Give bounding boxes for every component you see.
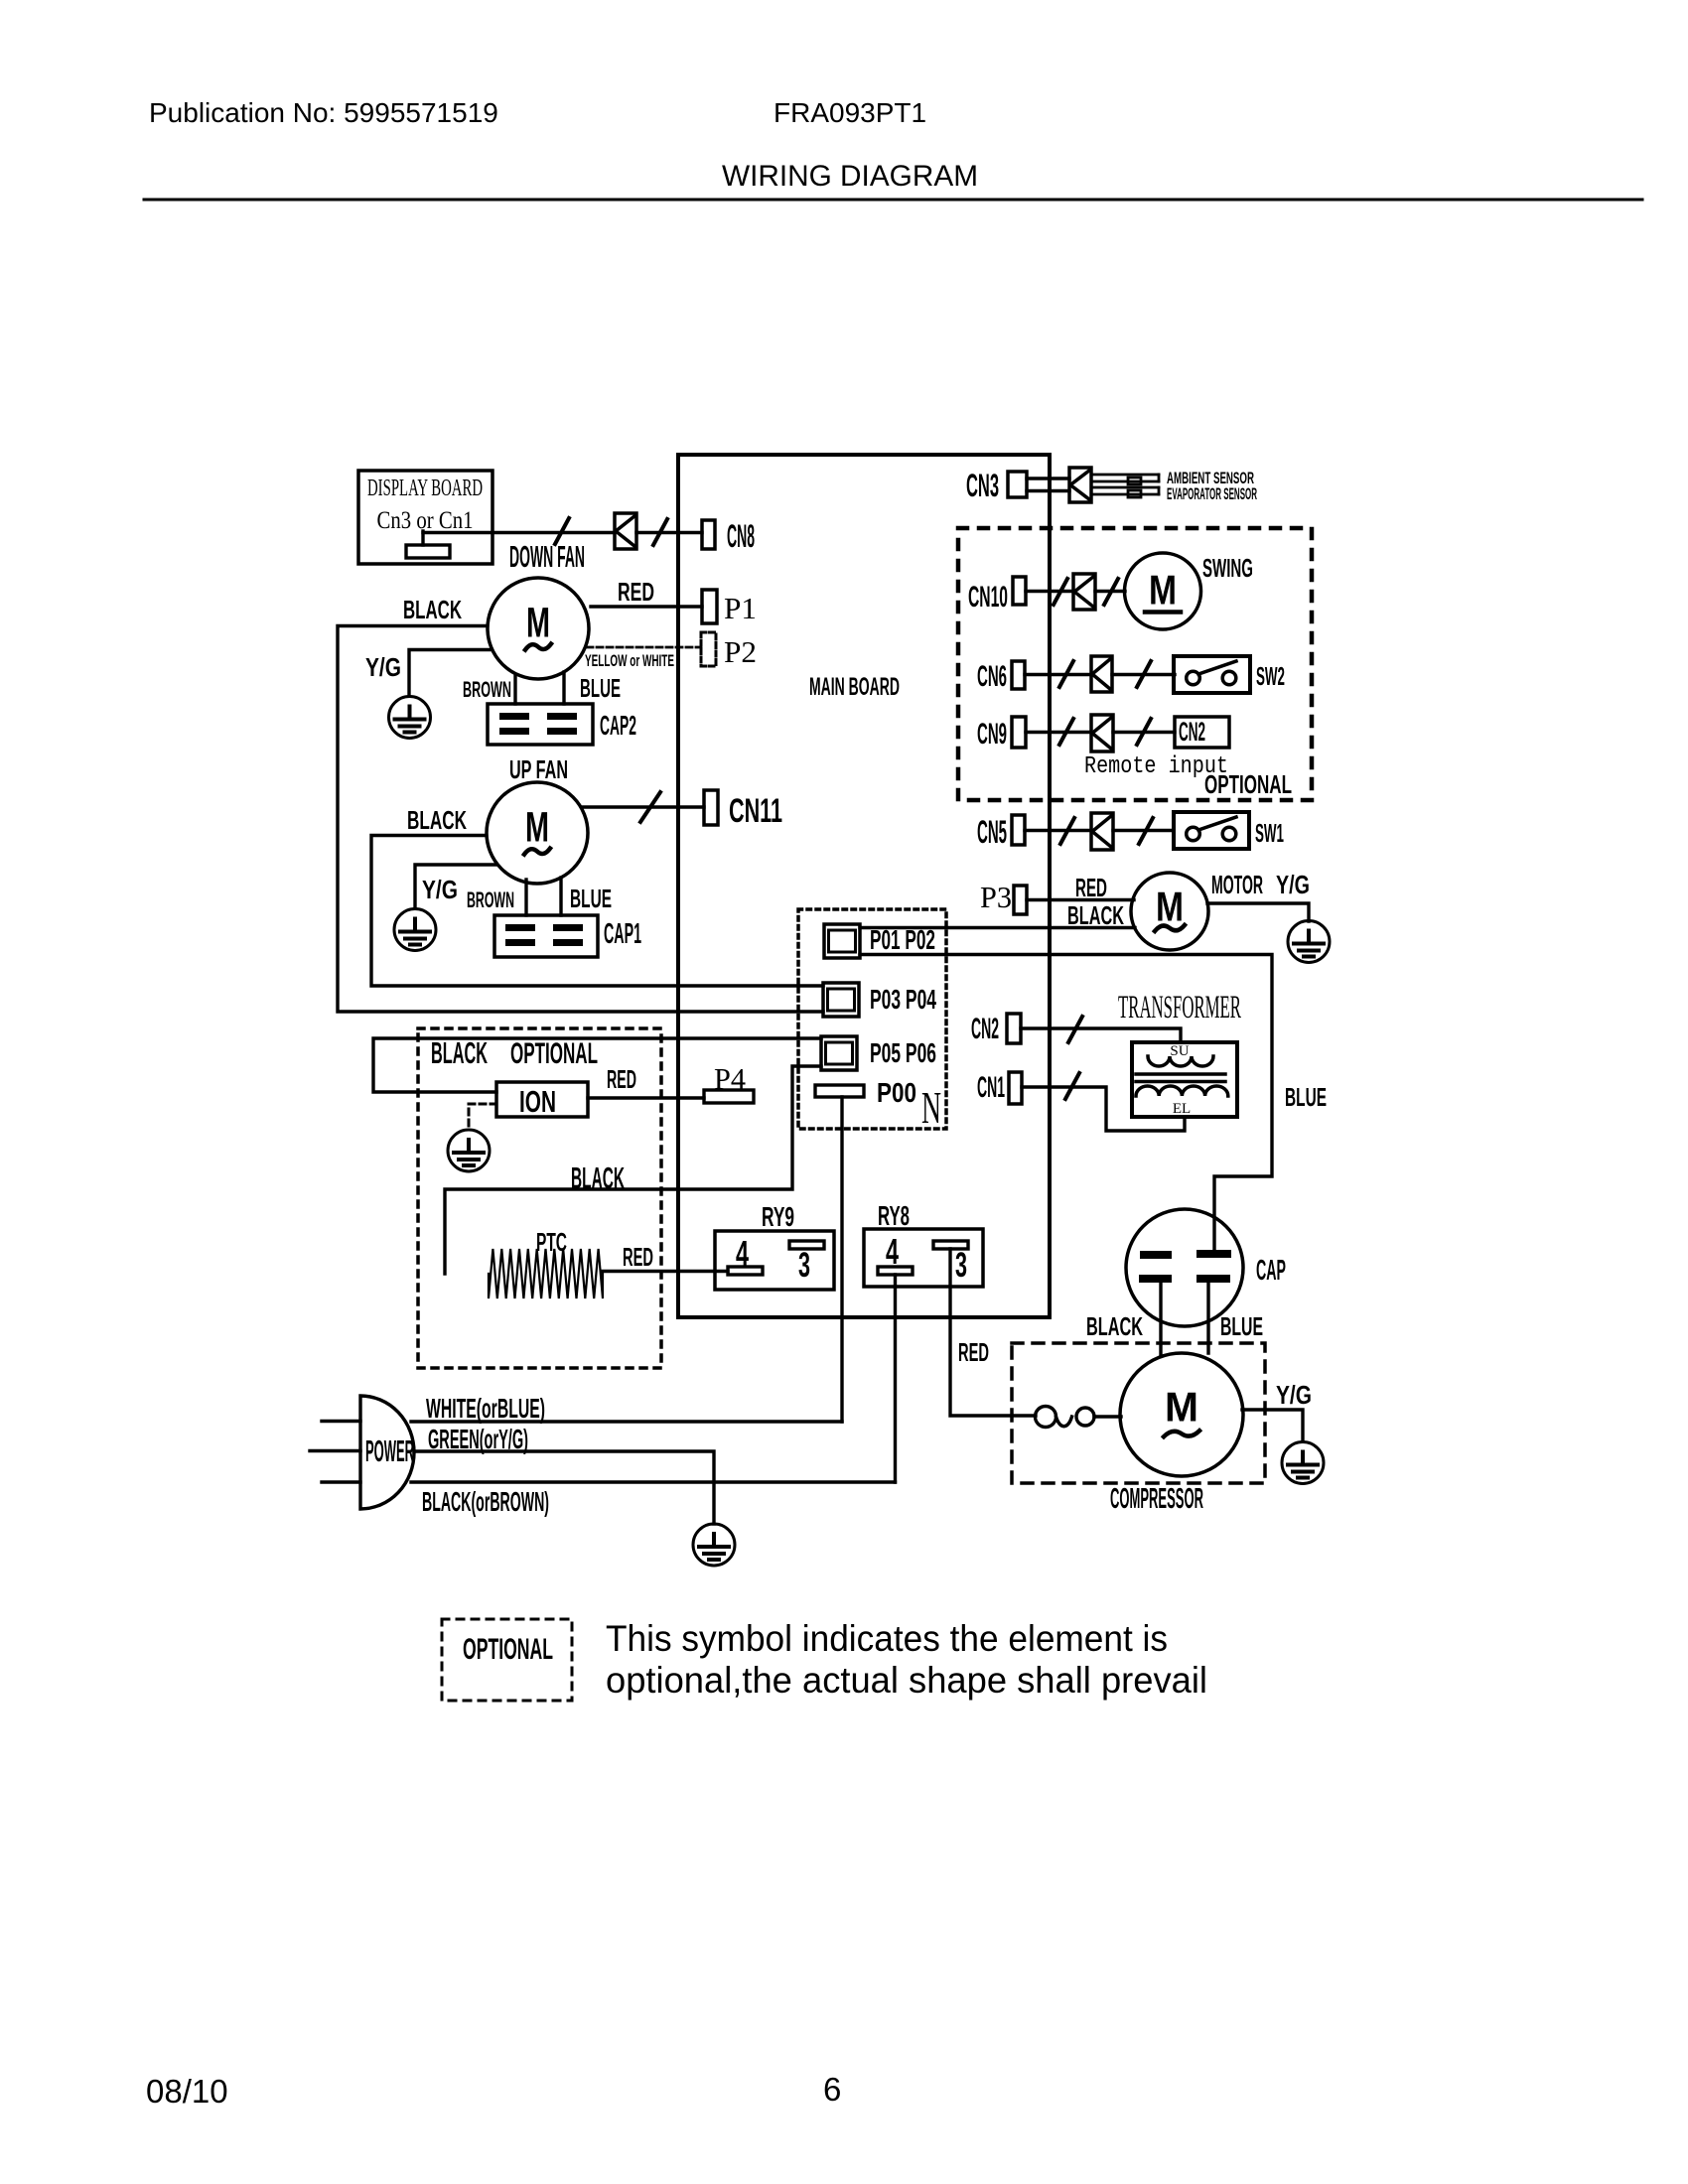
- svg-text:POWER: POWER: [365, 1433, 414, 1468]
- wire P01 top (BLACK to motor): [860, 926, 1135, 929]
- ground motor: [1288, 921, 1330, 963]
- wire blue down fan to CAP2: [562, 672, 565, 704]
- svg-text:MOTOR: MOTOR: [1211, 870, 1263, 899]
- resistor PTC zigzag: [489, 1249, 603, 1298]
- svg-text:CAP2: CAP2: [600, 710, 636, 741]
- overload protector: [1036, 1407, 1095, 1428]
- svg-text:MAIN BOARD: MAIN BOARD: [809, 673, 900, 701]
- svg-text:CN10: CN10: [968, 581, 1008, 614]
- svg-text:P03 P04: P03 P04: [870, 984, 936, 1015]
- wire blue up fan to CAP1: [559, 878, 562, 915]
- wire CN10 to plug: [1026, 590, 1073, 593]
- ground ION: [448, 1130, 490, 1171]
- ambient sensor lead: [1091, 475, 1159, 484]
- svg-text:Y/G: Y/G: [1276, 870, 1310, 899]
- ground down fan: [389, 697, 431, 739]
- plug connector CN10: [1073, 574, 1095, 610]
- plug connector CN9: [1091, 715, 1113, 751]
- svg-text:08/10: 08/10: [146, 2073, 228, 2110]
- remote connector CN2 box: [1175, 717, 1229, 748]
- wire P05 top to ION: [373, 1038, 821, 1092]
- wire P3 RED to motor: [1027, 898, 1134, 901]
- wire CAP blue to compressor: [1206, 1283, 1209, 1353]
- motor M swing: [1125, 553, 1201, 629]
- wire BLACK up fan to P03P04: [371, 836, 823, 987]
- wire power white: [411, 1420, 842, 1423]
- capacitor CAP circle: [1126, 1209, 1243, 1326]
- power prong green: [310, 1449, 360, 1452]
- svg-text:M: M: [526, 599, 550, 646]
- svg-text:OPTIONAL: OPTIONAL: [1204, 769, 1292, 799]
- wire plug to CN8: [636, 531, 702, 534]
- capacitor CAP2 box: [488, 704, 593, 745]
- svg-text:CN8: CN8: [727, 518, 755, 554]
- wire brown down fan to CAP2: [513, 675, 516, 704]
- svg-text:SW2: SW2: [1256, 661, 1285, 691]
- svg-text:DOWN FAN: DOWN FAN: [509, 539, 585, 574]
- svg-text:CN11: CN11: [729, 792, 782, 830]
- motor M down fan: [488, 578, 589, 679]
- wire CN2 to transformer: [1021, 1028, 1181, 1042]
- connector CN8: [702, 520, 715, 549]
- wire P00 down to power white: [840, 1097, 843, 1422]
- svg-text:SW1: SW1: [1255, 818, 1284, 848]
- svg-text:BLACK: BLACK: [1067, 900, 1124, 930]
- wire RY8 pin4 down to power black: [894, 1275, 897, 1482]
- svg-text:OPTIONAL: OPTIONAL: [463, 1633, 553, 1666]
- wire plug to CN2 remote: [1113, 731, 1175, 734]
- main board U1 outline: [678, 455, 1050, 1317]
- optional dashed box ION: [418, 1028, 661, 1368]
- evaporator sensor lead: [1091, 487, 1159, 497]
- svg-text:M: M: [525, 803, 549, 851]
- svg-text:P1: P1: [724, 591, 757, 625]
- connector P1: [702, 590, 717, 623]
- svg-text:BLUE: BLUE: [1285, 1082, 1327, 1112]
- wire up fan to CN11: [582, 805, 704, 808]
- wire plug to SW1: [1113, 829, 1174, 832]
- connector P03 P04: [823, 983, 859, 1017]
- svg-text:CAP1: CAP1: [604, 918, 641, 950]
- connector P00 bar: [815, 1085, 864, 1097]
- svg-text:This symbol indicates the elem: This symbol indicates the element is: [606, 1618, 1168, 1659]
- svg-text:RED: RED: [607, 1064, 636, 1094]
- wire power black: [411, 1480, 896, 1483]
- svg-text:DISPLAY BOARD: DISPLAY BOARD: [367, 476, 483, 501]
- svg-text:N: N: [921, 1082, 941, 1133]
- svg-text:BLACK: BLACK: [571, 1160, 625, 1195]
- ground compressor: [1282, 1442, 1324, 1484]
- connector P05 P06: [821, 1036, 857, 1070]
- svg-text:WHITE(orBLUE): WHITE(orBLUE): [426, 1393, 545, 1424]
- svg-text:M: M: [1156, 884, 1184, 930]
- wire CN5 to plug: [1025, 829, 1091, 832]
- connector P3: [1014, 886, 1027, 914]
- wire ION ground dashed: [469, 1104, 496, 1129]
- svg-text:CAP: CAP: [1256, 1255, 1286, 1287]
- wire PTC to RY9 pin4: [603, 1270, 728, 1273]
- svg-text:BLUE: BLUE: [570, 884, 612, 913]
- svg-text:YELLOW or WHITE: YELLOW or WHITE: [585, 651, 674, 670]
- wire power green to ground: [414, 1451, 714, 1524]
- RY8 pin 4: [878, 1231, 913, 1275]
- power plug: [360, 1396, 414, 1509]
- svg-text:ION: ION: [519, 1084, 556, 1119]
- capacitor CAP1 box: [494, 915, 598, 957]
- svg-text:BLUE: BLUE: [580, 673, 621, 703]
- slash CN6 wire 2: [1137, 661, 1151, 687]
- RY8 pin 3: [933, 1241, 968, 1285]
- switch SW2 box: [1174, 656, 1250, 693]
- RY9 pin 4: [728, 1233, 763, 1275]
- power prong black: [322, 1480, 360, 1483]
- wire CN6 to plug: [1025, 673, 1091, 676]
- svg-text:Y/G: Y/G: [1276, 1380, 1312, 1410]
- svg-text:CN1: CN1: [977, 1071, 1005, 1104]
- plug connector CN5: [1091, 813, 1113, 850]
- slash CN2 wire: [1068, 1017, 1082, 1042]
- svg-text:RY9: RY9: [762, 1201, 794, 1232]
- svg-text:M: M: [1165, 1383, 1198, 1430]
- power prong white: [322, 1420, 360, 1423]
- motor M up fan: [487, 782, 588, 884]
- wire plug to SW2: [1112, 673, 1175, 676]
- wire down fan to P1: [591, 605, 702, 608]
- wire Y/G up fan: [415, 865, 496, 908]
- connector CN6: [1012, 661, 1025, 689]
- ground up fan: [394, 909, 436, 951]
- transformer primary coil: [1148, 1056, 1213, 1066]
- wire RY8 pin3 to compressor (RED): [950, 1249, 1036, 1416]
- svg-text:3: 3: [955, 1246, 967, 1285]
- svg-text:Y/G: Y/G: [422, 875, 458, 904]
- transformer secondary coil: [1136, 1086, 1228, 1096]
- wire Y/G down fan: [409, 650, 491, 697]
- svg-text:M: M: [1149, 567, 1177, 614]
- relay RY8 box: [864, 1229, 983, 1287]
- plug connector display-CN8: [615, 513, 636, 549]
- svg-text:UP FAN: UP FAN: [509, 754, 568, 784]
- svg-text:P05 P06: P05 P06: [870, 1037, 936, 1068]
- wire plug to swing: [1095, 590, 1125, 593]
- wire dashed down fan to P2: [587, 646, 701, 649]
- wire overload to compressor: [1094, 1415, 1121, 1418]
- slash CN10 wire 2: [1104, 579, 1118, 605]
- svg-text:EVAPORATOR SENSOR: EVAPORATOR SENSOR: [1167, 484, 1257, 503]
- ION box: [496, 1082, 588, 1119]
- connector P4 bar: [704, 1090, 754, 1103]
- svg-text:6: 6: [823, 2071, 841, 2108]
- svg-text:RY8: RY8: [878, 1200, 910, 1231]
- connector CN11: [704, 790, 718, 825]
- legend OPTIONAL box: [442, 1619, 572, 1701]
- compressor dashed box: [1012, 1343, 1265, 1483]
- relay RY9 box: [715, 1231, 834, 1290]
- transformer core lines: [1136, 1072, 1225, 1076]
- svg-text:TRANSFORMER: TRANSFORMER: [1118, 990, 1241, 1025]
- ground power: [693, 1524, 735, 1566]
- transformer T1 box: [1132, 1042, 1237, 1117]
- slash CN10 wire 1: [1054, 579, 1067, 605]
- svg-text:Publication No: 5995571519: Publication No: 5995571519: [149, 97, 498, 128]
- wire CAP black to compressor: [1159, 1283, 1162, 1356]
- svg-text:WIRING DIAGRAM: WIRING DIAGRAM: [722, 160, 978, 193]
- slash CN9 wire 2: [1137, 719, 1151, 745]
- svg-text:CN3: CN3: [966, 468, 999, 503]
- svg-text:BLACK(orBROWN): BLACK(orBROWN): [422, 1486, 549, 1517]
- connector P01 P02: [824, 924, 860, 958]
- svg-text:RED: RED: [623, 1242, 653, 1272]
- connector P2 dashed: [701, 632, 716, 666]
- svg-text:BLUE: BLUE: [1220, 1311, 1263, 1341]
- connector CN2 main: [1007, 1014, 1021, 1043]
- svg-text:OPTIONAL: OPTIONAL: [510, 1037, 598, 1070]
- CAP plates: [1139, 1250, 1231, 1283]
- plug connector CN6: [1091, 656, 1112, 692]
- title rule: [144, 199, 1642, 202]
- motor M p3: [1131, 873, 1208, 950]
- wire CN9 to plug: [1026, 731, 1091, 734]
- svg-text:BLACK: BLACK: [407, 805, 467, 835]
- plug connector sensors: [1069, 468, 1091, 502]
- wire BLACK down fan to P03P04: [338, 626, 823, 1013]
- display board outline: [358, 471, 492, 564]
- svg-text:CN2: CN2: [1179, 717, 1205, 747]
- dotted box P0x: [798, 909, 946, 1129]
- connector CN5: [1012, 815, 1025, 845]
- svg-text:Y/G: Y/G: [365, 652, 401, 682]
- slash CN5 wire 2: [1139, 818, 1153, 844]
- wire P02 bottom (BLUE): [860, 955, 1272, 1252]
- svg-text:CN9: CN9: [977, 718, 1007, 751]
- CAP2 plates: [499, 713, 577, 735]
- svg-text:CN5: CN5: [977, 814, 1007, 850]
- connector CN9: [1012, 717, 1026, 748]
- connector CN3: [1008, 472, 1027, 497]
- CAP1 plates: [505, 924, 583, 946]
- svg-text:SWING: SWING: [1202, 553, 1253, 583]
- connector CN1 main: [1009, 1072, 1022, 1104]
- svg-text:BLACK: BLACK: [403, 595, 462, 624]
- svg-text:BROWN: BROWN: [467, 887, 514, 912]
- display board connector tab: [406, 545, 450, 558]
- slash CN6 wire 1: [1059, 661, 1073, 687]
- wire ION to P4: [588, 1096, 704, 1099]
- svg-text:CN2: CN2: [971, 1013, 999, 1045]
- wire CN3 sensor bottom: [1027, 489, 1069, 492]
- svg-text:CN6: CN6: [977, 660, 1007, 693]
- slash on CN11 wire: [640, 792, 660, 822]
- svg-text:BLACK: BLACK: [1086, 1311, 1143, 1341]
- motor M compressor: [1120, 1353, 1243, 1476]
- svg-text:P2: P2: [724, 634, 757, 669]
- svg-text:optional,the actual shape shal: optional,the actual shape shall prevail: [606, 1660, 1207, 1701]
- svg-text:RED: RED: [958, 1337, 989, 1367]
- svg-text:BROWN: BROWN: [463, 677, 511, 702]
- slash on display wire 1: [555, 518, 569, 544]
- optional dashed box right: [958, 528, 1312, 800]
- wire motor Y/G to ground: [1207, 903, 1309, 921]
- svg-text:P00: P00: [877, 1077, 916, 1108]
- svg-text:COMPRESSOR: COMPRESSOR: [1110, 1483, 1203, 1515]
- slash on display wire 2: [653, 519, 667, 545]
- wire brown up fan to CAP1: [524, 880, 527, 915]
- svg-text:RED: RED: [618, 577, 654, 607]
- svg-text:SU: SU: [1170, 1043, 1189, 1059]
- svg-text:EL: EL: [1173, 1101, 1191, 1117]
- wire CN3 sensor top: [1027, 477, 1069, 479]
- wire CN1 to transformer EL: [1022, 1087, 1185, 1131]
- svg-text:Cn3 or Cn1: Cn3 or Cn1: [377, 507, 474, 534]
- svg-text:BLACK: BLACK: [431, 1035, 488, 1070]
- svg-text:3: 3: [798, 1246, 810, 1285]
- display board tab stem: [421, 531, 424, 545]
- RY9 pin 3: [789, 1241, 824, 1285]
- wire compressor Y/G to ground: [1242, 1410, 1303, 1441]
- wire P06 to PTC: [445, 1066, 821, 1274]
- svg-text:FRA093PT1: FRA093PT1: [774, 97, 926, 128]
- slash CN1 wire: [1065, 1073, 1079, 1099]
- wire display board to CN8: [423, 531, 615, 534]
- connector CN10: [1013, 577, 1026, 605]
- slash CN9 wire 1: [1059, 719, 1073, 745]
- switch SW1 box: [1174, 812, 1249, 849]
- svg-text:P3: P3: [980, 880, 1012, 914]
- slash CN5 wire 1: [1060, 818, 1074, 844]
- svg-text:RED: RED: [1075, 873, 1107, 902]
